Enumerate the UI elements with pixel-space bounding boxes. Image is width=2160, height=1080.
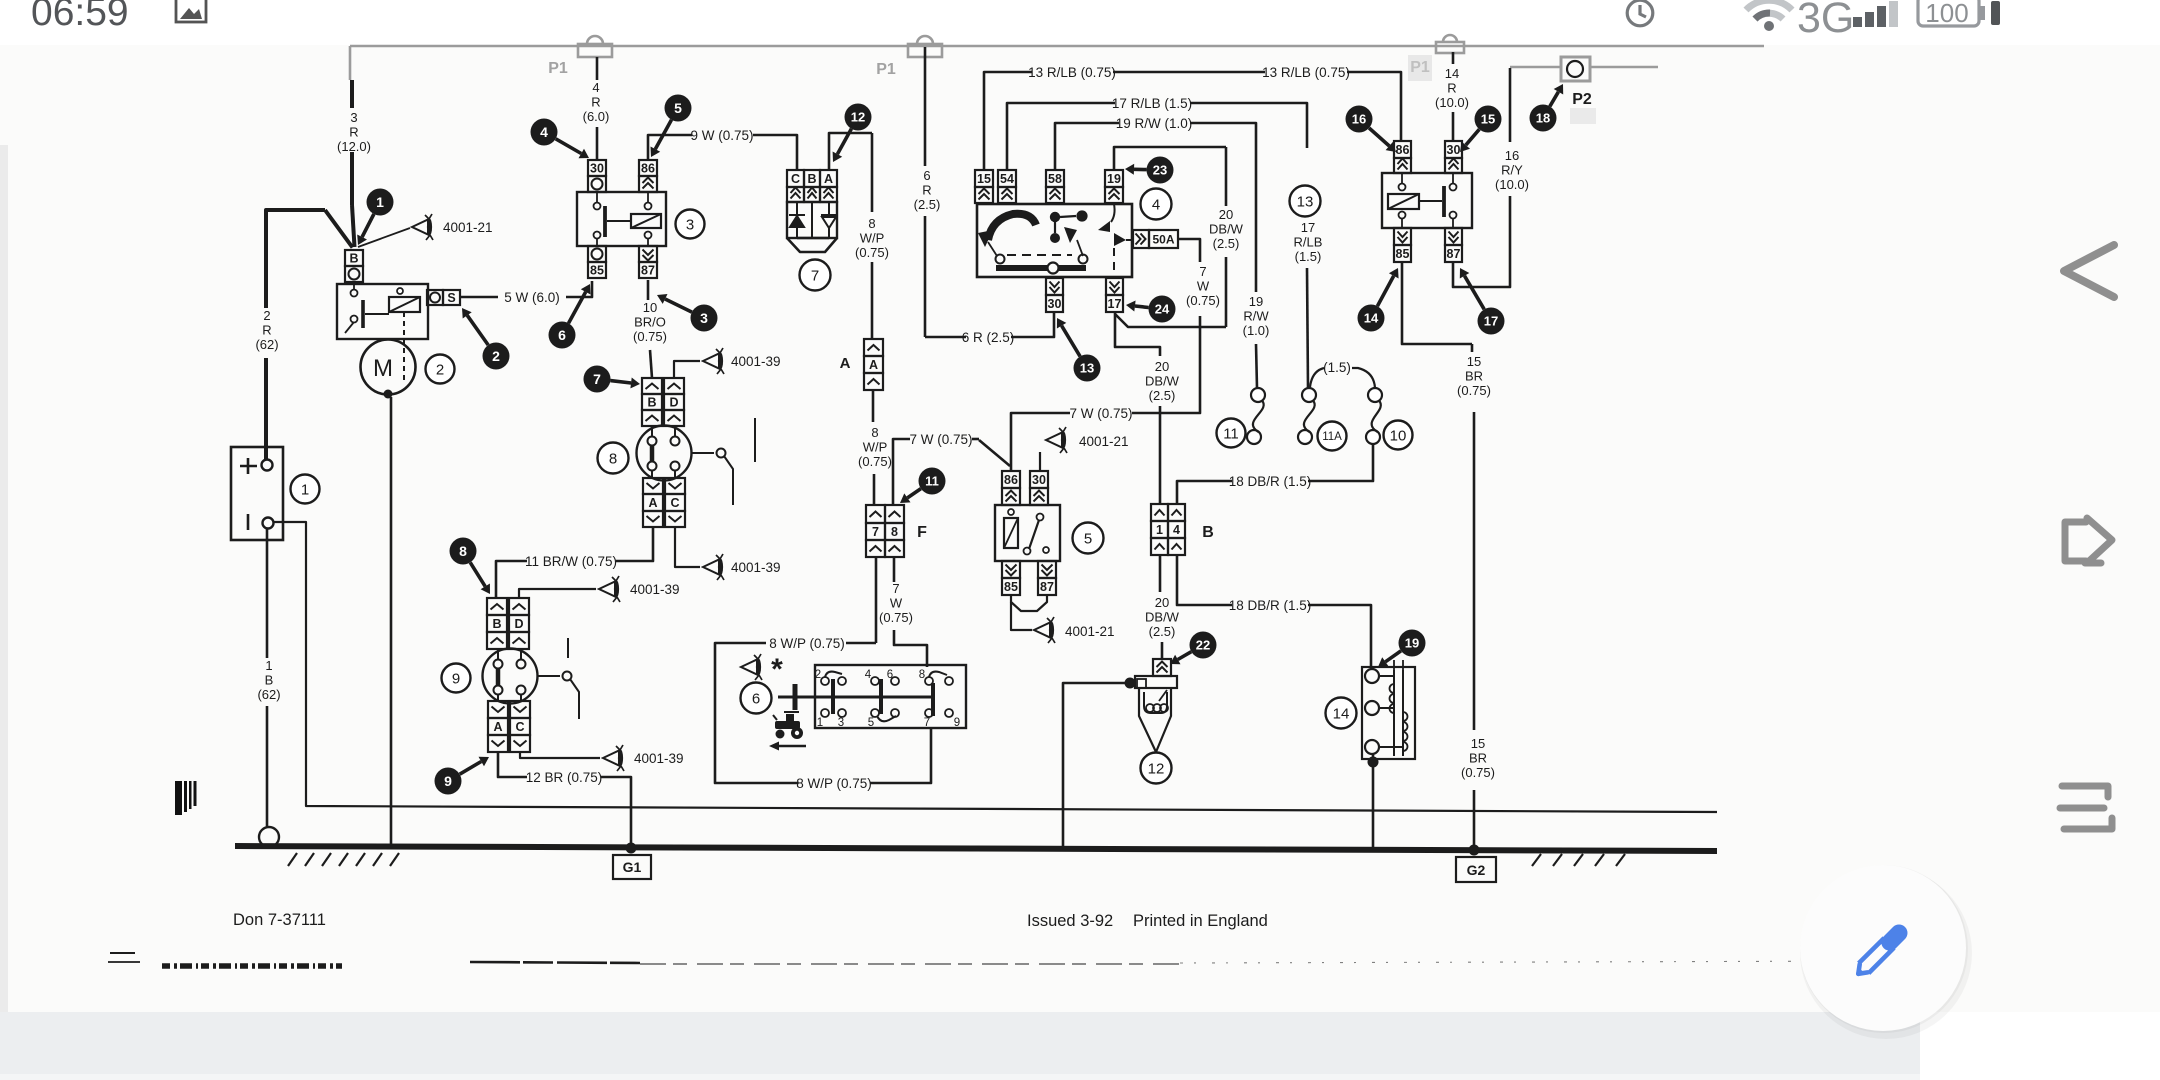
wire 9 W (0.75) relay 86 to diode pack [648,135,692,160]
svg-text:A: A [869,358,878,372]
status bar signal strength bars [1853,1,1898,27]
callout 5 to relay terminal 86 [655,120,671,149]
svg-text:13: 13 [1297,193,1314,210]
safety start switch (component 6) [815,665,966,728]
svg-text:13: 13 [1080,361,1094,376]
svg-text:15: 15 [1467,354,1481,369]
svg-text:6: 6 [923,168,930,183]
svg-text:3: 3 [838,717,844,729]
connector 8 lower pins A C [643,478,663,494]
component number 1 battery [291,475,320,504]
wire relay 5 coil returns [1011,595,1047,611]
svg-text:M: M [373,355,393,382]
svg-text:17: 17 [1108,297,1122,311]
svg-text:4001-39: 4001-39 [634,751,684,766]
svg-text:R/Y: R/Y [1501,163,1523,178]
relay (component 3) [588,160,606,176]
svg-text:C: C [515,720,524,734]
svg-text:DB/W: DB/W [1145,610,1180,625]
svg-text:B: B [1202,524,1214,541]
svg-text:19: 19 [1405,636,1419,651]
ignition switch contact dots [1050,212,1060,222]
component number 13 relay [1290,186,1321,217]
svg-text:R: R [1447,81,1456,96]
svg-text:DB/W: DB/W [1145,374,1180,389]
svg-text:BR: BR [1469,751,1487,766]
switch 6 contact hooks [825,672,842,677]
nav exit icon [2065,518,2112,563]
svg-text:W: W [1197,279,1210,294]
connector 9 upper pins B D [487,598,507,615]
svg-text:(0.75): (0.75) [1461,765,1495,780]
svg-text:1: 1 [265,658,272,673]
svg-text:4: 4 [592,80,599,95]
component number 9 connector [442,664,471,693]
wire top feed bus from P1 connectors [350,45,1764,48]
flasher unit (component 14) [1362,667,1415,759]
svg-text:6: 6 [558,327,566,343]
svg-text:7: 7 [593,371,601,387]
callout 3 to relay terminal 87 wire [665,299,692,312]
svg-text:17: 17 [1484,314,1498,329]
svg-text:13 R/LB (0.75): 13 R/LB (0.75) [1262,65,1350,80]
svg-text:12 BR (0.75): 12 BR (0.75) [526,770,603,785]
status bar alarm clock icon [1627,0,1653,26]
svg-text:R: R [591,95,600,110]
svg-text:B: B [349,252,358,266]
callout 6 to relay terminal 85 [569,292,586,323]
svg-text:14: 14 [1445,66,1459,81]
svg-text:7: 7 [924,717,930,729]
svg-text:(0.75): (0.75) [855,245,889,260]
svg-text:5: 5 [674,100,682,116]
horn symbol 4001-21 above relay 5 [1046,427,1067,453]
svg-text:1: 1 [1156,523,1163,537]
svg-text:S: S [447,291,455,305]
battery (component 1) [231,447,283,540]
svg-text:15: 15 [1471,736,1485,751]
ground G1 [626,843,637,854]
status bar photo icon [176,0,206,22]
svg-text:7: 7 [892,581,899,596]
svg-text:5: 5 [868,717,874,729]
wire 18 DB/R (1.5) connector B to component 14 [1177,555,1232,605]
svg-text:100: 100 [1925,0,1968,28]
callout 12 to diode pack terminal A [837,129,851,154]
svg-text:B: B [492,617,501,631]
callout 11 to connector F [907,489,921,498]
wire 20 DB/W (2.5) ignition 19 to 17 loop [1114,147,1226,170]
diode D2 [821,202,837,238]
inline connector 10 with (1.5) stub [1352,368,1375,388]
tractor pictogram [773,712,803,739]
svg-text:(0.75): (0.75) [879,610,913,625]
relay (component 5) [1002,471,1020,488]
starter solenoid (component 2) [337,284,428,339]
wire starter motor to ground [390,397,393,848]
svg-text:1: 1 [301,481,309,498]
svg-text:58: 58 [1048,172,1062,186]
svg-text:C: C [791,172,800,186]
svg-text:7: 7 [1199,264,1206,279]
svg-text:Printed in England: Printed in England [1133,912,1268,930]
svg-text:4001-21: 4001-21 [443,220,493,235]
horn symbol with asterisk in switch 6 [741,654,762,680]
svg-text:R/W: R/W [1243,309,1269,324]
svg-text:D: D [514,617,523,631]
connector 8 lever contact [692,452,714,454]
component number 3 relay [676,210,705,239]
svg-text:54: 54 [1000,172,1014,186]
svg-text:8 W/P (0.75): 8 W/P (0.75) [796,776,872,791]
svg-text:(0.75): (0.75) [858,454,892,469]
connector 8 upper pins B D [642,378,662,394]
svg-text:19: 19 [1249,294,1263,309]
svg-text:(1.5): (1.5) [1323,360,1351,375]
svg-text:C: C [670,496,679,510]
svg-text:18 DB/R (1.5): 18 DB/R (1.5) [1229,474,1312,489]
svg-text:11A: 11A [1322,431,1342,443]
inline connector 11 [1251,388,1265,402]
svg-text:9: 9 [452,670,460,687]
svg-text:B: B [265,673,274,688]
svg-text:6: 6 [752,690,760,707]
callout 7 to connector 8 pin B wire [610,381,631,383]
svg-text:G2: G2 [1467,862,1486,878]
svg-text:3: 3 [350,110,357,125]
svg-text:5 W (6.0): 5 W (6.0) [504,290,560,305]
callout 13 to terminal 30 [1062,326,1081,357]
svg-text:B: B [807,172,816,186]
svg-text:*: * [771,653,783,686]
svg-text:10: 10 [1390,427,1407,444]
callout 23 to terminal 19 [1134,168,1147,172]
component number 12 fuel sender [1141,753,1172,784]
callout 22 to fuel sender [1178,652,1192,660]
svg-text:(2.5): (2.5) [1149,624,1176,639]
svg-text:F: F [917,524,927,541]
connector 9 body [483,649,538,704]
component number 7 diode pack [800,260,831,291]
horn symbol 4001-39 upper [703,348,724,374]
svg-text:86: 86 [641,162,655,176]
svg-text:30: 30 [590,162,604,176]
svg-text:2: 2 [492,348,500,364]
svg-text:(0.75): (0.75) [633,329,667,344]
svg-text:9: 9 [954,717,960,729]
component number 10 [1384,421,1413,450]
ignition switch dashed travel [1007,254,1072,256]
svg-text:(12.0): (12.0) [337,139,371,154]
svg-text:24: 24 [1155,302,1170,317]
svg-text:BR/O: BR/O [634,315,666,330]
svg-text:15: 15 [1481,112,1495,127]
svg-text:30: 30 [1032,473,1046,487]
ignition switch terminals 30 17 [1046,278,1063,295]
svg-text:8 W/P (0.75): 8 W/P (0.75) [769,636,845,651]
svg-text:(6.0): (6.0) [583,109,610,124]
svg-text:7 W (0.75): 7 W (0.75) [909,432,972,447]
svg-text:15: 15 [977,172,991,186]
svg-text:8: 8 [871,425,878,440]
callout 19 to component 14 [1385,651,1401,662]
svg-text:86: 86 [1004,473,1018,487]
svg-text:7 W (0.75): 7 W (0.75) [1069,406,1132,421]
svg-text:4: 4 [1173,523,1180,537]
svg-text:A: A [824,172,833,186]
svg-text:7: 7 [811,267,819,284]
svg-text:(2.5): (2.5) [914,197,941,212]
wire 8 W/P (0.75) top loop of switch 6 [846,642,876,645]
switch 6 gear shift symbol [778,696,833,699]
ground terminal circle battery [259,827,279,847]
svg-text:4: 4 [540,124,548,140]
svg-text:16: 16 [1505,148,1519,163]
svg-text:W: W [890,596,903,611]
callout 2 to terminal S [467,315,488,345]
svg-text:87: 87 [641,264,655,278]
svg-text:8: 8 [919,669,925,681]
svg-text:2: 2 [815,669,821,681]
wire 17 R/LB (1.5) ignition 54 to connector 11A [1007,103,1115,170]
svg-text:(2.5): (2.5) [1149,388,1176,403]
relay (component 13) [1394,141,1411,158]
svg-text:6 R (2.5): 6 R (2.5) [962,330,1015,345]
svg-text:87: 87 [1040,580,1054,594]
svg-text:P2: P2 [1572,91,1592,108]
connector 9 lever contact [538,675,560,677]
svg-text:20: 20 [1219,207,1233,222]
callout 16 to relay 13 terminal 86 [1369,128,1389,146]
svg-text:85: 85 [1004,580,1018,594]
svg-text:4: 4 [1152,196,1160,213]
svg-text:10: 10 [643,300,657,315]
component number 5 relay [1073,523,1104,554]
svg-text:18 DB/R (1.5): 18 DB/R (1.5) [1229,598,1312,613]
horn symbol 4001-21 near terminal B [358,228,410,247]
junction dot fuel sender feed [1125,678,1136,689]
svg-text:(0.75): (0.75) [1186,293,1220,308]
svg-text:06:59: 06:59 [31,0,129,34]
svg-text:DB/W: DB/W [1209,222,1244,237]
svg-text:22: 22 [1196,638,1210,653]
wire battery negative to chassis line [274,522,1717,812]
svg-text:P1: P1 [548,60,568,77]
svg-text:P1: P1 [876,61,896,78]
component number 2 starter [426,355,455,384]
svg-text:9 W (0.75): 9 W (0.75) [690,128,753,143]
component number 8 connector [598,443,629,474]
svg-text:13 R/LB (0.75): 13 R/LB (0.75) [1028,65,1116,80]
ignition switch arrow contact [1064,227,1077,243]
svg-text:14: 14 [1333,705,1350,722]
wire 7 W (0.75) connector F to relay 5 terminal 86 [893,439,910,505]
svg-text:85: 85 [1396,247,1410,261]
wire connector 9 C to horn [520,752,600,758]
svg-text:4001-39: 4001-39 [630,582,680,597]
svg-text:(2.5): (2.5) [1213,236,1240,251]
svg-text:17 R/LB (1.5): 17 R/LB (1.5) [1112,96,1192,111]
fuel sender (component 12) [1153,659,1171,676]
ignition switch body (component 4) [977,204,1132,277]
wire 20 DB/W (2.5) ignition 17 to connector B [1115,312,1160,356]
svg-text:19: 19 [1107,172,1121,186]
callout 1 to terminal B [362,214,374,237]
component number 14 [1326,698,1357,729]
svg-text:1: 1 [817,717,823,729]
svg-text:11: 11 [1223,425,1239,442]
diode pack connector C B A [787,170,804,187]
svg-text:8: 8 [868,216,875,231]
nav list icon [2060,786,2112,829]
svg-text:20: 20 [1155,359,1169,374]
barcode mark [175,781,197,815]
callout 14 to relay 13 terminal 85 [1377,276,1393,306]
svg-text:4001-39: 4001-39 [731,354,781,369]
connector A [864,339,883,356]
wire component 14 to ground [1372,754,1375,849]
wire 7 W (0.75) fusible link to relay 5 [1178,239,1200,262]
wire 19 R/W (1.0) ignition 58 to connector 11 [1055,123,1119,170]
wire 12 BR (0.75) connector 9 A to ground G1 [498,752,527,777]
svg-text:D: D [669,396,678,410]
svg-text:(1.5): (1.5) [1295,249,1322,264]
svg-text:4001-21: 4001-21 [1065,624,1115,639]
svg-text:87: 87 [1447,247,1461,261]
wire connector 9 D to horn [519,589,596,598]
wire 7 W (0.75) connector F pin 8 down to switch 6 pin 8 [893,557,896,582]
svg-text:4001-39: 4001-39 [731,560,781,575]
svg-text:Don 7-37111: Don 7-37111 [233,911,326,929]
ignition switch terminals 15 54 58 19 [975,170,993,187]
nav back chevron icon [2064,245,2114,297]
status bar battery indicator 100 [1918,0,1979,26]
svg-text:Issued 3-92: Issued 3-92 [1027,912,1113,930]
svg-text:(62): (62) [255,337,278,352]
component number 11 [1217,419,1246,448]
svg-text:G1: G1 [623,859,642,875]
svg-text:R: R [262,323,271,338]
svg-text:16: 16 [1352,112,1366,127]
svg-text:W/P: W/P [860,231,885,246]
wire 6 R (2.5) P1 to ignition 30 [924,47,927,166]
svg-text:(62): (62) [257,687,280,702]
edit FAB button [1800,867,1972,1039]
wire 15 BR (0.75) relay 13 terminal 85 to ground G2 [1402,262,1472,344]
wire 3 R (12.0) battery feed [350,80,354,108]
wire 20 DB/W (2.5) connector B to fuel sender [1159,555,1162,592]
svg-text:(10.0): (10.0) [1495,177,1529,192]
svg-text:(1.0): (1.0) [1243,323,1270,338]
horn symbol 4001-21 below relay 5 [1034,617,1055,643]
starter motor M (component 2) [361,340,416,395]
svg-text:6: 6 [887,669,893,681]
callout 9 to connector 9 A [460,762,482,775]
connector P1 (first) [578,36,612,57]
wire 8 W/P (0.75) connector A to connector F [872,390,875,422]
wire relay 5 terminal 30 to horn ground [1039,452,1041,471]
wire connector F pin 7 down to switch 6 [875,557,878,643]
callout 17 to relay 13 terminal 87 [1465,276,1485,310]
horn symbol 4001-39 mid [703,554,724,580]
ground bus [235,846,1717,851]
svg-text:W/P: W/P [863,440,888,455]
svg-text:(0.75): (0.75) [1457,383,1491,398]
svg-text:9: 9 [444,773,452,789]
tractor direction arrow [777,745,806,748]
horn symbol 4001-39 at connector 9 D [599,576,620,602]
scan noise strip [108,953,1900,966]
svg-text:A: A [648,496,657,510]
svg-text:12: 12 [851,110,865,125]
ground hatching right of G2 [1532,854,1541,866]
svg-text:8: 8 [459,543,467,559]
wire 18 DB/R (1.5) connector 10 to connector B [1308,444,1373,481]
svg-text:85: 85 [590,264,604,278]
svg-text:R: R [922,183,931,198]
wire 14 R (10.0) P1 to relay 13 terminal 30 [1452,52,1455,64]
svg-text:18: 18 [1536,111,1550,126]
connector P1 (second) [908,36,942,57]
svg-text:5: 5 [1084,530,1092,547]
terminal S [427,290,443,305]
svg-text:3G: 3G [1797,0,1854,42]
wire 1 B (62) battery negative to ground [266,529,269,658]
ground hatching left [288,853,297,866]
callout 15 to relay 13 terminal 30 [1466,129,1480,145]
fusible link 50A [1133,230,1149,248]
svg-text:2: 2 [263,308,270,323]
svg-text:30: 30 [1447,143,1461,157]
svg-text:A: A [493,720,502,734]
switch 6 contact pins [821,677,829,685]
svg-text:A: A [840,355,851,372]
horn symbol 4001-39 lower [603,745,624,771]
ignition switch key arc [988,214,1036,240]
svg-text:11: 11 [925,474,939,489]
wire 5 W (6.0) S to relay 85 [460,296,498,299]
wire fuel sender to ground [1063,683,1126,848]
connector 8 body [637,426,692,481]
wire 4 R (6.0) P1 to relay 30 [596,57,599,80]
edit pencil icon [1858,933,1899,974]
svg-text:86: 86 [1396,143,1410,157]
svg-text:20: 20 [1155,595,1169,610]
svg-text:11 BR/W (0.75): 11 BR/W (0.75) [525,554,617,569]
svg-text:3: 3 [686,216,694,233]
svg-text:50A: 50A [1152,232,1174,246]
wire 2 R (62) battery positive to solenoid [266,210,325,308]
svg-text:1: 1 [376,194,384,210]
wire 8 W/P (0.75) diode A to connector A [829,133,872,170]
terminal B starter solenoid [345,250,363,266]
wire 13 R/LB (0.75) ignition 15 to relay 13 [984,72,1032,170]
diode D1 [789,202,805,238]
wire 11 BR/W (0.75) connector 8 A to connector 9 B [616,527,653,561]
connector P2 [1510,66,1658,68]
ignition switch accessory contacts right [1111,204,1115,222]
ground G2 [1469,845,1480,856]
diode pack body (component 7) [787,202,837,238]
svg-text:B: B [647,396,656,410]
svg-text:(10.0): (10.0) [1435,95,1469,110]
connector B [1151,504,1168,521]
svg-text:4: 4 [865,669,872,681]
svg-text:23: 23 [1153,163,1167,178]
connector P1 (third) [1436,35,1464,53]
wire 16 R/Y (10.0) relay 13 terminal 87 to P2 [1453,196,1510,287]
connector 9 lower pins A C [488,701,508,718]
